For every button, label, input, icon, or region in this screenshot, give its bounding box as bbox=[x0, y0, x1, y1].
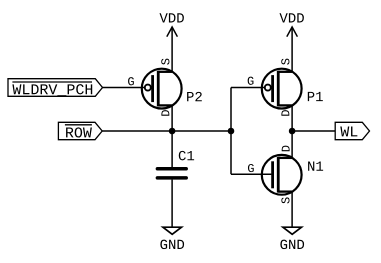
pin label G of N1 bbox=[248, 164, 254, 172]
power symbol VDD (left) bbox=[159, 13, 183, 36]
pin label S of P1 bbox=[281, 59, 289, 65]
pin label S of N1 bbox=[281, 197, 289, 203]
input label WLDRV_PCH bbox=[8, 79, 103, 97]
junction at inverter output bbox=[289, 128, 296, 135]
transistor P1 (PMOS) bbox=[262, 69, 302, 109]
output label WL bbox=[335, 122, 369, 139]
ground symbol GND (left) bbox=[160, 227, 184, 249]
pin label D of N1 bbox=[282, 146, 290, 152]
wire C1 to GND bbox=[171, 180, 173, 227]
power symbol VDD (right) bbox=[279, 13, 303, 36]
wire P1 drain to N1 drain bbox=[291, 105, 293, 157]
wire to N1 gate bbox=[231, 173, 271, 175]
reference label C1 bbox=[179, 151, 194, 161]
pin label G of P1 bbox=[248, 77, 254, 85]
wire bus to C1 bbox=[171, 131, 173, 167]
reference label P1 bbox=[308, 92, 323, 101]
capacitor C1 bbox=[157, 169, 186, 178]
wire VDD to P1 source bbox=[291, 27, 293, 72]
junction at P2 drain / C1 bbox=[169, 128, 176, 135]
pin label G of P2 bbox=[128, 77, 134, 85]
transistor P2 (PMOS) bbox=[142, 69, 182, 109]
pin label D of P1 bbox=[281, 110, 289, 116]
wire WLDRV_PCH to P2 gate bbox=[103, 87, 145, 89]
pin label S of P2 bbox=[161, 59, 169, 65]
pin label D of P2 bbox=[161, 110, 169, 116]
junction at gate column bbox=[228, 128, 235, 135]
wire VDD to P2 source bbox=[171, 27, 173, 72]
reference label N1 bbox=[308, 161, 323, 170]
wire N1 source to GND bbox=[291, 192, 293, 227]
wire P2 drain to bus bbox=[171, 105, 173, 131]
wire output to WL bbox=[292, 130, 335, 132]
input label ROW bbox=[58, 122, 102, 139]
transistor N1 (NMOS) bbox=[262, 155, 302, 195]
ground symbol GND (right) bbox=[280, 227, 304, 249]
reference label P2 bbox=[187, 92, 202, 101]
wire gate column vertical bbox=[230, 88, 232, 175]
wire to P1 gate bbox=[231, 87, 264, 89]
wire ROW bus bbox=[102, 130, 231, 132]
